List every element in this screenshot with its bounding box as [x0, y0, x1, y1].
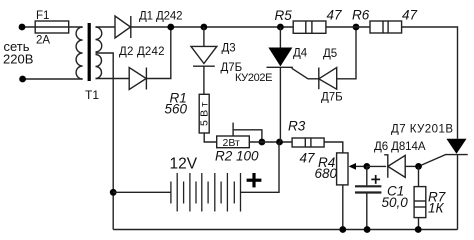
node terminal bottom: [19, 76, 26, 83]
svg-text:Д6 Д814А: Д6 Д814А: [374, 141, 426, 153]
transformer T1 secondary winding upper: [96, 27, 102, 52]
svg-text:47: 47: [402, 7, 418, 22]
svg-text:2A: 2A: [36, 35, 50, 47]
svg-text:F1: F1: [36, 10, 49, 22]
node junction D5/R6: [353, 24, 360, 31]
wire D5 to R6 node: [337, 27, 356, 79]
resistor R1 560 5W: [199, 94, 209, 133]
wire secondary bottom lead: [96, 78, 130, 80]
svg-text:Т1: Т1: [85, 88, 99, 102]
wire C1 top lead: [366, 166, 368, 185]
svg-text:47: 47: [300, 151, 316, 166]
wire mid rail: [249, 141, 292, 143]
wire top rail mid: [131, 26, 293, 28]
svg-text:1К: 1К: [428, 201, 445, 216]
rheostat R2 100 2W: [217, 136, 250, 148]
svg-text:R3: R3: [288, 119, 306, 134]
svg-text:5Вт: 5Вт: [199, 102, 211, 126]
fuse F1: [35, 21, 68, 33]
svg-text:Д7 КУ201В: Д7 КУ201В: [391, 123, 453, 135]
svg-text:Д1 Д242: Д1 Д242: [139, 11, 183, 23]
wire R3 to R4: [324, 142, 343, 153]
node junction battery+/D4 cathode: [276, 139, 283, 146]
diode D3 D7B: [191, 46, 217, 63]
thyristor D4 KU202E: [268, 48, 292, 67]
svg-text:2Вт: 2Вт: [223, 137, 240, 149]
svg-text:R2 100: R2 100: [215, 149, 259, 164]
wire battery left lead: [113, 191, 171, 193]
node junction C1/bottom rail: [364, 226, 371, 233]
wire D7 gate slant: [419, 155, 446, 167]
wire D6 anode lead: [367, 165, 386, 167]
wire D7 cathode down: [457, 155, 459, 230]
capacitor C1 50.0: [355, 185, 381, 187]
wire bottom rail: [113, 229, 457, 231]
svg-text:220В: 220В: [3, 52, 33, 67]
node junction D3/top rail: [201, 24, 208, 31]
resistor R6 47: [370, 21, 402, 33]
wire D6 to node: [405, 165, 418, 167]
diode D2 D242: [129, 68, 146, 90]
wire top rail right + right rail: [402, 27, 458, 139]
transformer core: [88, 23, 91, 81]
thyristor D7 KU201V: [446, 139, 466, 154]
wire R4 bottom: [342, 185, 344, 230]
wire R1 bottom to R2: [204, 133, 217, 142]
wire D4 gate slant: [292, 68, 319, 79]
wire top rail left (through fuse): [22, 26, 83, 28]
node junction D2/top rail: [167, 24, 174, 31]
wire D3 anode: [203, 27, 205, 46]
battery plus sign: [247, 173, 262, 187]
node junction wiper/mid wire: [259, 139, 266, 146]
node terminal top: [19, 24, 26, 31]
node junction R4/bottom rail: [339, 226, 346, 233]
diode D1 D242: [115, 16, 131, 38]
svg-text:R5: R5: [275, 8, 293, 23]
resistor R7 1K: [414, 187, 426, 218]
node junction D4 anode/top rail: [277, 24, 284, 31]
wire R7 top lead: [418, 166, 420, 186]
zener D6 D814A: [384, 155, 388, 178]
wire R4 wiper arrow: [351, 165, 367, 167]
transformer T1 secondary winding lower: [96, 55, 102, 79]
resistor R5 47: [293, 21, 326, 33]
svg-text:12V: 12V: [170, 156, 198, 173]
svg-text:560: 560: [165, 102, 188, 117]
wire D4 cathode down: [279, 67, 281, 142]
wire secondary top lead: [96, 26, 116, 28]
wire battery right lead to mid rail: [241, 142, 280, 192]
svg-text:КУ202Е: КУ202Е: [235, 72, 273, 84]
wire bottom primary lead: [23, 78, 83, 80]
diode D5 D7B: [318, 68, 320, 90]
wire secondary center tap: [96, 53, 114, 230]
node junction R7/bottom rail: [415, 226, 422, 233]
svg-text:R6: R6: [352, 7, 370, 22]
wire C1 bottom lead: [366, 194, 368, 230]
svg-text:Д7Б: Д7Б: [321, 91, 343, 103]
potentiometer R4 680: [337, 153, 348, 185]
resistor R3 47: [292, 138, 324, 147]
svg-text:Д3: Д3: [222, 42, 236, 54]
svg-text:47: 47: [327, 7, 343, 22]
svg-text:Д2 Д242: Д2 Д242: [119, 46, 165, 58]
wire R2 wiper: [232, 123, 234, 136]
wire R7 bottom lead: [418, 218, 420, 230]
node junction wiper/C1: [363, 163, 370, 170]
svg-text:Д5: Д5: [323, 48, 337, 60]
node junction D6/R7/gate: [415, 163, 422, 170]
C1 plus sign: [371, 175, 380, 184]
wire D2 cathode to top rail: [146, 27, 170, 79]
svg-text:50,0: 50,0: [382, 195, 409, 210]
svg-text:680: 680: [315, 166, 338, 181]
transformer T1 primary winding: [76, 27, 83, 79]
node junction battery/left rail: [110, 189, 117, 196]
wire D3 cathode to R1: [203, 66, 205, 94]
wire R5 to R6: [326, 26, 370, 28]
svg-text:Д4: Д4: [293, 47, 308, 59]
battery 12V plates: [171, 173, 241, 212]
wire D4 anode: [279, 27, 281, 48]
